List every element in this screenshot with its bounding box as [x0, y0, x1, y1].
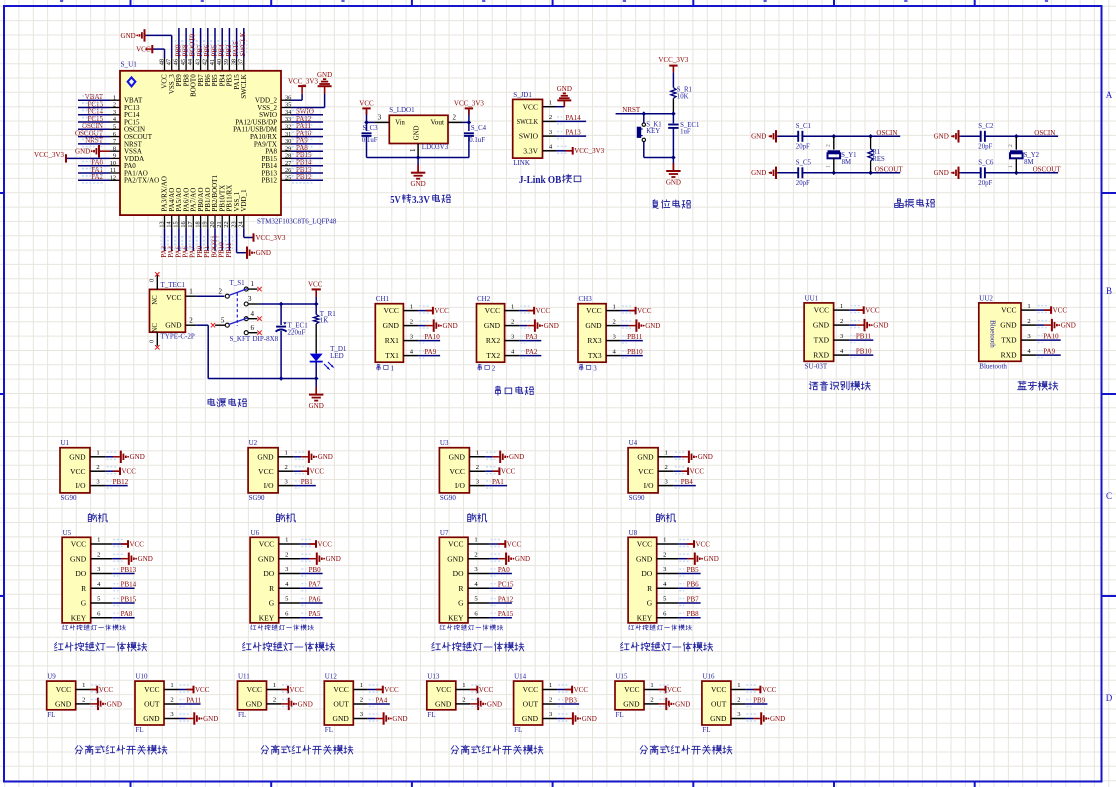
svg-text:SG90: SG90 — [61, 494, 77, 502]
svg-text:TX2: TX2 — [486, 351, 500, 360]
svg-text:PB15: PB15 — [121, 595, 137, 603]
svg-text:Vout: Vout — [431, 119, 445, 127]
svg-text:1: 1 — [409, 148, 417, 152]
svg-text:VCC: VCC — [711, 685, 726, 694]
svg-text:B: B — [1106, 286, 1112, 296]
svg-text:S_C1: S_C1 — [796, 123, 811, 130]
svg-text:3.3V: 3.3V — [412, 194, 430, 206]
svg-text:I/O: I/O — [264, 481, 275, 490]
svg-text:GND: GND — [449, 452, 466, 461]
svg-text:45: 45 — [180, 59, 187, 65]
svg-text:U15: U15 — [616, 673, 629, 681]
svg-text:RXD: RXD — [1001, 351, 1017, 360]
svg-text:U13: U13 — [427, 673, 440, 681]
svg-text:GND: GND — [383, 321, 400, 330]
svg-text:PA2: PA2 — [526, 348, 538, 356]
svg-text:NC: NC — [152, 295, 159, 305]
svg-text:PB12: PB12 — [261, 177, 277, 185]
svg-text:17: 17 — [187, 221, 194, 227]
svg-text:LED: LED — [330, 352, 344, 360]
svg-text:39: 39 — [223, 59, 230, 65]
svg-text:VCC: VCC — [384, 686, 399, 694]
svg-text:1: 1 — [737, 682, 740, 689]
svg-text:GND: GND — [522, 714, 539, 723]
svg-text:PA9: PA9 — [1043, 348, 1055, 356]
svg-text:2: 2 — [511, 318, 514, 325]
svg-text:33: 33 — [285, 116, 291, 123]
svg-text:GND: GND — [256, 249, 271, 257]
svg-text:GND: GND — [318, 453, 333, 461]
svg-text:2: 2 — [476, 464, 479, 471]
svg-text:SWCLK: SWCLK — [240, 74, 248, 99]
svg-text:3.3V: 3.3V — [523, 146, 538, 155]
svg-text:2: 2 — [663, 551, 666, 558]
svg-text:GND: GND — [934, 133, 949, 141]
svg-text:14: 14 — [166, 220, 173, 227]
svg-text:4: 4 — [251, 310, 255, 318]
svg-text:Bluetooth: Bluetooth — [979, 362, 1007, 370]
svg-text:DIP-8X8: DIP-8X8 — [253, 335, 279, 343]
svg-text:VCC: VCC — [359, 100, 374, 108]
svg-text:VCC: VCC — [166, 293, 181, 302]
svg-text:GND: GND — [326, 555, 341, 563]
svg-text:R: R — [269, 584, 274, 593]
svg-text:2: 2 — [549, 697, 552, 704]
svg-text:2: 2 — [97, 551, 100, 558]
svg-text:VCC: VCC — [637, 540, 652, 549]
svg-text:VCC: VCC — [507, 540, 522, 548]
svg-text:VCC: VCC — [1001, 306, 1016, 315]
svg-text:GND: GND — [1061, 322, 1076, 330]
svg-text:PA11: PA11 — [186, 696, 202, 704]
svg-text:VCC: VCC — [762, 686, 777, 694]
svg-text:G: G — [458, 599, 464, 608]
svg-text:38: 38 — [230, 59, 237, 65]
svg-text:GND: GND — [544, 322, 559, 330]
svg-text:GND: GND — [75, 148, 90, 156]
svg-text:2: 2 — [665, 464, 668, 471]
svg-text:2: 2 — [113, 102, 116, 109]
svg-text:18: 18 — [194, 221, 201, 227]
svg-text:5: 5 — [113, 124, 116, 131]
svg-text:PB7: PB7 — [687, 595, 700, 603]
svg-text:1: 1 — [663, 537, 666, 544]
svg-text:1: 1 — [476, 450, 479, 457]
svg-text:VCC: VCC — [536, 307, 551, 315]
svg-text:S_C3: S_C3 — [363, 125, 379, 132]
svg-text:GND: GND — [582, 715, 597, 723]
svg-text:10: 10 — [110, 160, 116, 167]
svg-text:VCC_3V3: VCC_3V3 — [574, 147, 604, 155]
svg-text:OSCOUT: OSCOUT — [875, 165, 904, 173]
svg-text:S_Y1: S_Y1 — [841, 152, 857, 159]
svg-text:VCC_3V3: VCC_3V3 — [658, 56, 688, 64]
svg-text:1: 1 — [613, 303, 616, 310]
svg-text:29: 29 — [285, 145, 291, 152]
svg-text:12: 12 — [110, 175, 116, 182]
svg-text:FL: FL — [616, 711, 624, 719]
svg-text:PA14: PA14 — [566, 114, 582, 122]
svg-text:1: 1 — [360, 682, 363, 689]
svg-text:NC: NC — [152, 323, 159, 333]
svg-text:2: 2 — [273, 697, 276, 704]
svg-text:VCC_3V3: VCC_3V3 — [454, 100, 484, 108]
svg-text:U11: U11 — [238, 673, 250, 681]
svg-text:PB12: PB12 — [113, 478, 129, 486]
svg-text:1: 1 — [285, 537, 288, 544]
svg-text:1: 1 — [113, 94, 116, 101]
svg-text:20pF: 20pF — [796, 144, 810, 151]
svg-text:Bluetooth: Bluetooth — [988, 320, 996, 348]
svg-text:0.1uF: 0.1uF — [362, 137, 378, 144]
svg-text:PB10: PB10 — [627, 348, 643, 356]
svg-text:0.1uF: 0.1uF — [469, 137, 485, 144]
svg-text:KEY: KEY — [637, 613, 653, 622]
svg-text:GND: GND — [675, 700, 690, 708]
svg-text:GND: GND — [770, 715, 785, 723]
svg-text:S_U1: S_U1 — [121, 60, 138, 68]
svg-text:PA4: PA4 — [376, 696, 388, 704]
svg-text:PB13: PB13 — [121, 566, 137, 574]
svg-text:3: 3 — [248, 295, 252, 303]
svg-text:PA6: PA6 — [309, 595, 321, 603]
svg-text:VCC: VCC — [122, 468, 137, 476]
svg-text:1uF: 1uF — [680, 129, 691, 136]
svg-text:32: 32 — [285, 124, 291, 131]
svg-text:25: 25 — [285, 175, 291, 182]
svg-text:VCC: VCC — [333, 685, 348, 694]
svg-text:3: 3 — [593, 364, 597, 372]
svg-text:PB9: PB9 — [753, 696, 766, 704]
svg-text:CH2: CH2 — [477, 295, 491, 303]
svg-text:T_S1: T_S1 — [230, 279, 246, 287]
svg-text:PA9: PA9 — [424, 348, 436, 356]
svg-text:1: 1 — [650, 682, 653, 689]
svg-text:28: 28 — [285, 153, 291, 160]
svg-text:PA2: PA2 — [91, 173, 103, 181]
svg-text:2: 2 — [840, 318, 843, 325]
svg-text:37: 37 — [238, 59, 245, 65]
svg-text:G: G — [269, 599, 275, 608]
svg-text:2: 2 — [1008, 144, 1014, 147]
svg-text:20: 20 — [209, 221, 216, 227]
svg-text:1: 1 — [251, 280, 255, 288]
svg-text:VCC: VCC — [523, 102, 538, 111]
svg-text:FL: FL — [702, 726, 710, 734]
svg-text:RES: RES — [872, 156, 885, 163]
svg-text:GND: GND — [411, 180, 426, 188]
svg-text:VDD_1: VDD_1 — [240, 189, 248, 212]
svg-text:PA15: PA15 — [498, 610, 514, 618]
svg-text:VCC: VCC — [259, 540, 274, 549]
svg-text:2: 2 — [650, 697, 653, 704]
svg-text:GND: GND — [710, 714, 727, 723]
svg-text:7: 7 — [113, 138, 116, 145]
svg-text:PA1: PA1 — [492, 478, 504, 486]
svg-text:KEY: KEY — [646, 128, 660, 135]
svg-text:1: 1 — [1027, 303, 1030, 310]
svg-text:9: 9 — [113, 153, 116, 160]
svg-text:U2: U2 — [249, 439, 258, 447]
svg-text:GND: GND — [934, 169, 949, 177]
svg-text:DO: DO — [641, 569, 652, 578]
svg-text:PA0: PA0 — [498, 566, 510, 574]
svg-text:2: 2 — [410, 318, 413, 325]
svg-text:VCC: VCC — [70, 467, 85, 476]
svg-text:LDO3V3: LDO3V3 — [422, 143, 449, 151]
svg-text:GND: GND — [585, 321, 602, 330]
svg-text:1: 1 — [665, 450, 668, 457]
svg-text:FL: FL — [47, 711, 55, 719]
svg-text:VCC_3V3: VCC_3V3 — [34, 151, 64, 159]
svg-text:FL: FL — [514, 726, 522, 734]
svg-text:PB5: PB5 — [687, 566, 700, 574]
svg-text:PB8: PB8 — [687, 610, 700, 618]
svg-text:U1: U1 — [61, 439, 70, 447]
svg-text:20pF: 20pF — [978, 180, 992, 187]
svg-text:2: 2 — [285, 464, 288, 471]
svg-text:FL: FL — [136, 726, 144, 734]
svg-text:GND: GND — [435, 700, 452, 709]
svg-text:1: 1 — [549, 99, 552, 106]
svg-text:20pF: 20pF — [796, 180, 810, 187]
svg-text:VCC: VCC — [696, 540, 711, 548]
svg-text:1: 1 — [1008, 165, 1014, 168]
svg-text:VCC: VCC — [501, 468, 516, 476]
svg-text:GND: GND — [143, 714, 160, 723]
svg-text:1: 1 — [97, 537, 100, 544]
svg-text:40: 40 — [216, 59, 223, 65]
svg-text:PA10: PA10 — [1043, 333, 1059, 341]
svg-text:2: 2 — [189, 316, 193, 324]
svg-text:6: 6 — [251, 324, 255, 332]
svg-text:GND: GND — [645, 322, 660, 330]
svg-text:1K: 1K — [320, 317, 329, 325]
svg-text:NRST: NRST — [622, 106, 641, 114]
svg-text:TX1: TX1 — [385, 351, 399, 360]
svg-text:SWCLK: SWCLK — [517, 117, 539, 126]
svg-text:OSCIN: OSCIN — [876, 129, 897, 137]
svg-text:U6: U6 — [251, 529, 260, 537]
svg-text:PC15: PC15 — [498, 581, 514, 589]
svg-text:8M: 8M — [842, 159, 851, 166]
svg-text:PA2/TX/AO: PA2/TX/AO — [124, 177, 159, 185]
svg-text:Vin: Vin — [395, 119, 405, 127]
svg-text:TXD: TXD — [1001, 336, 1017, 345]
svg-text:VCC_3V3: VCC_3V3 — [256, 234, 286, 242]
svg-text:2: 2 — [613, 318, 616, 325]
svg-text:GND: GND — [55, 700, 72, 709]
svg-text:2: 2 — [170, 697, 173, 704]
svg-text:1: 1 — [825, 165, 831, 168]
svg-text:GND: GND — [70, 554, 87, 563]
svg-text:2: 2 — [453, 113, 457, 121]
svg-text:U8: U8 — [629, 529, 638, 537]
svg-text:42: 42 — [202, 59, 209, 65]
svg-text:GND: GND — [557, 85, 572, 93]
svg-text:OUT: OUT — [333, 700, 349, 709]
svg-text:KEY: KEY — [71, 613, 87, 622]
svg-text:GND: GND — [246, 700, 263, 709]
svg-text:VCC: VCC — [247, 685, 262, 694]
svg-text:GND: GND — [298, 700, 313, 708]
svg-text:OUT: OUT — [144, 700, 160, 709]
svg-text:2: 2 — [360, 697, 363, 704]
svg-text:GND: GND — [333, 714, 350, 723]
svg-text:0: 0 — [149, 279, 156, 282]
svg-text:GND: GND — [258, 554, 275, 563]
svg-text:U14: U14 — [514, 673, 527, 681]
svg-text:47: 47 — [166, 59, 173, 65]
svg-text:U7: U7 — [440, 529, 449, 537]
svg-text:VCC: VCC — [308, 281, 323, 289]
svg-text:OSCOUT: OSCOUT — [1033, 165, 1062, 173]
svg-text:5V: 5V — [390, 194, 400, 206]
svg-text:GND: GND — [203, 715, 218, 723]
svg-text:T_TEC1: T_TEC1 — [161, 281, 186, 289]
svg-text:1: 1 — [511, 303, 514, 310]
svg-text:GND: GND — [704, 555, 719, 563]
svg-text:0: 0 — [149, 340, 156, 343]
svg-text:16: 16 — [180, 221, 187, 227]
svg-text:I/O: I/O — [455, 481, 466, 490]
svg-text:36: 36 — [285, 94, 291, 101]
svg-text:GND: GND — [121, 32, 136, 40]
svg-text:U5: U5 — [63, 529, 72, 537]
svg-text:1: 1 — [549, 682, 552, 689]
svg-text:GND: GND — [447, 554, 464, 563]
svg-text:GND: GND — [666, 179, 681, 187]
svg-text:VCC: VCC — [99, 686, 114, 694]
svg-text:2: 2 — [96, 464, 99, 471]
svg-text:35: 35 — [285, 102, 291, 109]
svg-text:PA7: PA7 — [309, 581, 321, 589]
svg-text:LINK: LINK — [513, 159, 530, 167]
svg-text:VCC: VCC — [383, 306, 398, 315]
svg-text:GND: GND — [130, 453, 145, 461]
svg-text:FL: FL — [325, 726, 333, 734]
svg-text:PA12: PA12 — [498, 595, 514, 603]
svg-text:VCC: VCC — [865, 307, 880, 315]
svg-text:SG90: SG90 — [440, 494, 456, 502]
svg-text:GND: GND — [487, 700, 502, 708]
svg-text:C: C — [1106, 491, 1112, 501]
svg-text:31: 31 — [285, 131, 291, 138]
svg-text:24: 24 — [238, 220, 245, 227]
svg-text:VCC: VCC — [448, 540, 463, 549]
svg-text:1: 1 — [410, 303, 413, 310]
svg-text:RX1: RX1 — [385, 336, 399, 345]
svg-text:U16: U16 — [702, 673, 715, 681]
svg-text:VCC: VCC — [1053, 307, 1068, 315]
svg-text:8: 8 — [113, 145, 116, 152]
svg-text:SWIO: SWIO — [519, 132, 539, 141]
svg-text:VCC: VCC — [814, 306, 829, 315]
svg-text:PB4: PB4 — [681, 478, 694, 486]
svg-text:VCC: VCC — [195, 686, 210, 694]
svg-text:48: 48 — [158, 59, 165, 65]
svg-text:VCC: VCC — [136, 46, 151, 54]
svg-text:S_JD1: S_JD1 — [513, 91, 532, 99]
svg-text:PA10: PA10 — [424, 333, 440, 341]
svg-text:GND: GND — [751, 133, 766, 141]
svg-text:VCC: VCC — [637, 307, 652, 315]
svg-text:UU2: UU2 — [979, 294, 993, 302]
svg-text:1: 1 — [96, 450, 99, 457]
svg-text:11: 11 — [110, 167, 116, 174]
svg-text:FL: FL — [427, 711, 435, 719]
svg-text:43: 43 — [194, 59, 201, 65]
svg-text:G: G — [81, 599, 87, 608]
svg-text:S_LDO1: S_LDO1 — [389, 106, 415, 114]
svg-text:U9: U9 — [47, 673, 56, 681]
svg-text:VCC: VCC — [258, 467, 273, 476]
svg-text:20pF: 20pF — [978, 144, 992, 151]
svg-text:VCC: VCC — [290, 686, 305, 694]
svg-text:PA13: PA13 — [566, 129, 582, 137]
svg-text:VCC: VCC — [523, 685, 538, 694]
svg-text:PA3: PA3 — [526, 333, 538, 341]
svg-text:SG90: SG90 — [629, 494, 645, 502]
svg-text:S_Y2: S_Y2 — [1024, 152, 1040, 159]
svg-text:GND: GND — [637, 452, 654, 461]
svg-text:TXD: TXD — [814, 336, 830, 345]
svg-text:GND: GND — [165, 321, 182, 330]
svg-text:GND: GND — [813, 321, 830, 330]
svg-text:GND: GND — [751, 169, 766, 177]
svg-text:GND: GND — [138, 555, 153, 563]
svg-text:1: 1 — [840, 303, 843, 310]
svg-text:S_C2: S_C2 — [978, 123, 994, 130]
svg-text:RX3: RX3 — [587, 336, 601, 345]
svg-text:VCC: VCC — [479, 686, 494, 694]
svg-text:GND: GND — [107, 700, 122, 708]
svg-text:GND: GND — [69, 452, 86, 461]
svg-text:TX3: TX3 — [588, 351, 602, 360]
svg-text:15: 15 — [173, 221, 180, 227]
svg-text:OUT: OUT — [711, 700, 727, 709]
svg-text:SG90: SG90 — [249, 494, 265, 502]
svg-text:R: R — [458, 584, 463, 593]
svg-text:VCC: VCC — [318, 540, 333, 548]
svg-text:NRST: NRST — [85, 137, 104, 145]
svg-text:GND: GND — [392, 715, 407, 723]
svg-text:23: 23 — [230, 221, 237, 227]
svg-text:TYPE-C-2P: TYPE-C-2P — [161, 333, 195, 341]
svg-text:VCC: VCC — [449, 467, 464, 476]
svg-text:2: 2 — [549, 114, 552, 121]
svg-text:GND: GND — [443, 322, 458, 330]
svg-text:VCC: VCC — [71, 540, 86, 549]
svg-text:2: 2 — [219, 287, 223, 295]
svg-text:VCC: VCC — [56, 685, 71, 694]
svg-text:R: R — [81, 584, 86, 593]
svg-text:2: 2 — [737, 697, 740, 704]
svg-text:2: 2 — [825, 144, 831, 147]
svg-text:6: 6 — [113, 131, 116, 138]
svg-text:27: 27 — [285, 160, 291, 167]
svg-text:21: 21 — [216, 221, 223, 227]
svg-text:FL: FL — [238, 711, 246, 719]
svg-text:220uF: 220uF — [288, 328, 306, 336]
svg-text:10K: 10K — [677, 93, 689, 100]
svg-text:OSCIN: OSCIN — [1034, 129, 1055, 137]
svg-text:I/O: I/O — [76, 481, 87, 490]
svg-text:2: 2 — [492, 364, 496, 372]
svg-text:KEY: KEY — [448, 613, 464, 622]
svg-text:1: 1 — [462, 682, 465, 689]
svg-text:3: 3 — [113, 109, 116, 116]
